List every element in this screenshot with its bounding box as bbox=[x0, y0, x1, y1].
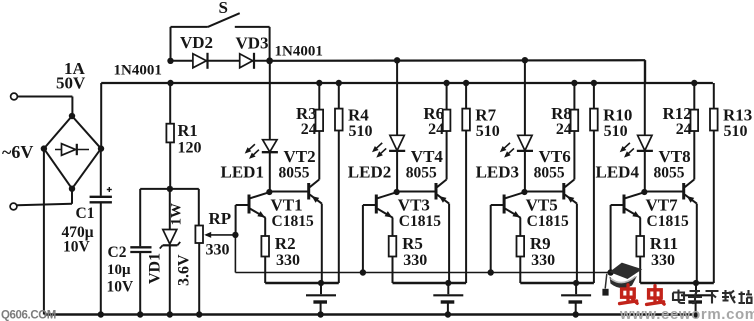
stage 1 emitter rail bbox=[265, 280, 339, 286]
stage 4 emitter rail bbox=[640, 280, 714, 286]
svg-text:VT7: VT7 bbox=[646, 196, 679, 215]
AC input terminal top bbox=[11, 93, 18, 100]
svg-text:C1815: C1815 bbox=[399, 213, 441, 230]
wire VT2 emitter column bbox=[321, 204, 323, 283]
label VT4 bbox=[406, 147, 444, 181]
svg-text:R10: R10 bbox=[603, 106, 632, 125]
base bus wire bbox=[232, 232, 610, 273]
switch S bbox=[171, 0, 270, 27]
svg-text:RP: RP bbox=[209, 209, 232, 228]
svg-text:R11: R11 bbox=[650, 234, 678, 253]
svg-text:24: 24 bbox=[301, 121, 317, 138]
svg-text:C1815: C1815 bbox=[647, 213, 689, 230]
junction ground bus C1 bbox=[98, 311, 104, 317]
svg-text:VD1: VD1 bbox=[147, 253, 164, 284]
wire VT3 base branch bbox=[360, 205, 366, 276]
resistor R2 330 bbox=[261, 218, 269, 283]
battery cell GB2 bbox=[433, 283, 463, 318]
node collector junction stage 3 bbox=[521, 189, 527, 195]
svg-text:120: 120 bbox=[178, 140, 202, 157]
svg-text:VT2: VT2 bbox=[284, 147, 316, 166]
svg-text:VT6: VT6 bbox=[539, 147, 571, 166]
resistor R5 330 bbox=[389, 218, 397, 283]
svg-text:Q606.COM: Q606.COM bbox=[1, 310, 56, 321]
junction LED bus stage2 bbox=[394, 57, 400, 63]
watermark Q606.COM bbox=[1, 310, 56, 321]
LED bus wire bbox=[270, 60, 646, 83]
RP wiper arrow bbox=[204, 232, 235, 238]
transistor VT4 bbox=[397, 180, 449, 204]
label LED3 bbox=[476, 162, 519, 181]
label VT3 bbox=[398, 196, 441, 230]
resistor R8 24 bbox=[571, 80, 579, 180]
logo url eeworm bbox=[619, 306, 754, 321]
node collector junction stage 4 bbox=[641, 189, 647, 195]
capacitor C1 470u bbox=[90, 149, 112, 315]
supply bus wire bbox=[101, 82, 713, 84]
stage 3 emitter rail bbox=[520, 280, 594, 286]
svg-text:VT3: VT3 bbox=[398, 196, 430, 215]
svg-text:VD3: VD3 bbox=[236, 34, 269, 53]
LED LED1 bbox=[245, 140, 278, 159]
svg-text:www.eeworm.com: www.eeworm.com bbox=[619, 306, 754, 321]
resistor R10 510 bbox=[590, 80, 598, 283]
wire LED1 anode column bbox=[269, 61, 271, 192]
resistor R11 330 bbox=[636, 218, 644, 283]
label 1N4001 left bbox=[114, 63, 162, 79]
transistor VT8 bbox=[644, 180, 696, 204]
label R6 bbox=[423, 104, 444, 138]
diode VD3 bbox=[240, 53, 254, 69]
label R11 bbox=[650, 234, 678, 269]
resistor R12 24 bbox=[691, 80, 699, 180]
wire VT5 base branch bbox=[488, 205, 494, 276]
transistor VT2 bbox=[269, 180, 321, 204]
svg-text:1N4001: 1N4001 bbox=[114, 63, 162, 79]
svg-text:R13: R13 bbox=[723, 106, 752, 125]
resistor R6 24 bbox=[443, 80, 451, 180]
resistor R3 24 bbox=[316, 80, 324, 180]
svg-text:S: S bbox=[219, 0, 228, 17]
label VD2 bbox=[180, 33, 213, 52]
svg-text:330: 330 bbox=[531, 252, 555, 269]
svg-text:VT1: VT1 bbox=[271, 196, 303, 215]
svg-text:VT8: VT8 bbox=[659, 147, 691, 166]
svg-text:24: 24 bbox=[556, 121, 572, 138]
svg-text:C1: C1 bbox=[76, 205, 95, 222]
svg-text:330: 330 bbox=[276, 252, 300, 269]
svg-text:8055: 8055 bbox=[534, 164, 565, 181]
diode VD2 bbox=[193, 53, 208, 69]
label R9 bbox=[530, 234, 555, 269]
logo text chong-chong bbox=[620, 285, 665, 305]
svg-text:330: 330 bbox=[206, 242, 230, 259]
label LED1 bbox=[221, 162, 264, 181]
node zener wire bbox=[140, 186, 199, 192]
label R2 bbox=[275, 234, 300, 269]
svg-text:510: 510 bbox=[349, 123, 373, 140]
label R3 bbox=[296, 104, 317, 138]
LED LED3 bbox=[500, 135, 533, 157]
svg-text:50V: 50V bbox=[56, 74, 86, 93]
label 1W bbox=[169, 203, 185, 226]
label RP bbox=[206, 209, 232, 259]
svg-text:510: 510 bbox=[476, 123, 500, 140]
AC input terminal bottom bbox=[10, 203, 17, 210]
svg-text:510: 510 bbox=[724, 123, 748, 140]
svg-text:R7: R7 bbox=[475, 106, 496, 125]
svg-text:R4: R4 bbox=[348, 106, 369, 125]
wire VT4 emitter column bbox=[448, 204, 450, 283]
svg-text:330: 330 bbox=[403, 252, 427, 269]
label 1N4001 right bbox=[275, 44, 323, 60]
wire bottom terminal to bridge bbox=[17, 189, 72, 206]
node collector junction stage 1 bbox=[266, 189, 272, 195]
junction ground bus C2 bbox=[137, 311, 143, 317]
transistor VT7 bbox=[611, 192, 645, 218]
svg-text:C1815: C1815 bbox=[272, 213, 314, 230]
wire VT6 emitter column bbox=[576, 204, 578, 283]
battery cell GB3 bbox=[561, 283, 591, 318]
label LED4 bbox=[596, 162, 640, 181]
wire LED2 anode column bbox=[396, 60, 398, 192]
svg-text:1W: 1W bbox=[169, 203, 185, 226]
svg-text:10μ: 10μ bbox=[107, 262, 131, 278]
svg-text:VT5: VT5 bbox=[526, 196, 558, 215]
svg-text:8055: 8055 bbox=[406, 164, 437, 181]
junction ground bus RP bbox=[196, 311, 202, 317]
wire LED3 anode column bbox=[524, 60, 526, 192]
capacitor C2 10u bbox=[130, 189, 151, 315]
battery cell GB4 bbox=[681, 283, 711, 318]
node collector junction stage 2 bbox=[394, 189, 400, 195]
label C2 bbox=[107, 244, 135, 296]
label R7 bbox=[475, 106, 500, 141]
logo graduation cap bbox=[602, 263, 642, 296]
wire VT7 base branch bbox=[607, 205, 613, 276]
label VT8 bbox=[654, 147, 691, 181]
bridge rectifier 1N4001 x4 bbox=[41, 113, 105, 192]
label R4 bbox=[348, 106, 373, 141]
svg-text:510: 510 bbox=[604, 123, 628, 140]
label VD3 bbox=[236, 34, 269, 53]
junction supply bus at R1 bbox=[167, 80, 173, 86]
transistor VT6 bbox=[525, 180, 577, 204]
junction ground bus VD1 bbox=[167, 311, 173, 317]
label VT5 bbox=[526, 196, 569, 230]
resistor R1 120 bbox=[166, 83, 174, 189]
label 1A bbox=[56, 59, 86, 93]
svg-text:8055: 8055 bbox=[654, 164, 685, 181]
label R5 bbox=[402, 234, 427, 269]
transistor VT5 bbox=[491, 192, 525, 218]
resistor R9 330 bbox=[517, 218, 525, 283]
wire switch-loop left vertical bbox=[170, 27, 172, 61]
label VT7 bbox=[646, 196, 689, 230]
svg-text:R9: R9 bbox=[530, 234, 551, 253]
svg-text:R1: R1 bbox=[178, 121, 198, 140]
zener diode VD1 3.6V bbox=[160, 189, 180, 315]
svg-text:VD2: VD2 bbox=[180, 33, 213, 52]
svg-text:R2: R2 bbox=[275, 234, 296, 253]
junction LED bus stage3 bbox=[522, 57, 528, 63]
svg-text:1N4001: 1N4001 bbox=[275, 44, 323, 60]
transistor VT1 bbox=[236, 192, 270, 218]
svg-text:330: 330 bbox=[651, 252, 675, 269]
wire switch-loop right vertical bbox=[269, 27, 271, 61]
LED LED4 bbox=[620, 135, 653, 157]
svg-text:24: 24 bbox=[676, 121, 692, 138]
svg-text:C1815: C1815 bbox=[527, 213, 569, 230]
label ~6V bbox=[2, 142, 33, 162]
label R8 bbox=[551, 104, 572, 138]
label R1 bbox=[178, 121, 202, 157]
resistor R7 510 bbox=[462, 80, 470, 283]
label 3.6V bbox=[176, 254, 193, 286]
svg-text:LED1: LED1 bbox=[221, 162, 264, 181]
svg-text:R5: R5 bbox=[402, 234, 423, 253]
svg-text:LED3: LED3 bbox=[476, 162, 519, 181]
wire VT8 emitter column bbox=[696, 204, 698, 283]
wire diode branch bbox=[167, 57, 273, 64]
ground bus wire bbox=[45, 313, 698, 316]
label R13 bbox=[723, 106, 752, 141]
svg-text:LED2: LED2 bbox=[348, 162, 391, 181]
stage 2 emitter rail bbox=[393, 280, 467, 286]
label C1 bbox=[62, 205, 95, 256]
wire bridge minus to bottom bus bbox=[43, 149, 45, 315]
svg-text:10V: 10V bbox=[107, 279, 135, 296]
svg-text:VT4: VT4 bbox=[411, 147, 444, 166]
svg-text:24: 24 bbox=[428, 121, 444, 138]
svg-text:C2: C2 bbox=[108, 244, 127, 261]
wire VT1 base branch bbox=[235, 205, 237, 235]
svg-text:10V: 10V bbox=[63, 239, 91, 256]
resistor R4 510 bbox=[335, 80, 343, 283]
wire LED4 anode column bbox=[644, 60, 646, 192]
LED LED2 bbox=[372, 135, 405, 157]
resistor R13 510 bbox=[710, 83, 718, 283]
transistor VT3 bbox=[363, 192, 397, 218]
svg-text:~6V: ~6V bbox=[2, 142, 33, 162]
label R10 bbox=[603, 106, 632, 141]
battery cell GB1 bbox=[306, 283, 336, 318]
label VT1 bbox=[271, 196, 314, 230]
label R12 bbox=[663, 104, 692, 138]
wire top terminal to bridge bbox=[17, 97, 72, 117]
svg-text:LED4: LED4 bbox=[596, 162, 640, 181]
label VT6 bbox=[534, 147, 571, 181]
wire bridge plus up to supply bus bbox=[100, 83, 102, 149]
svg-text:8055: 8055 bbox=[279, 164, 310, 181]
label VD1 bbox=[147, 253, 164, 284]
label VT2 bbox=[279, 147, 316, 181]
potentiometer RP 330 bbox=[195, 189, 203, 315]
svg-text:3.6V: 3.6V bbox=[176, 254, 193, 286]
label LED2 bbox=[348, 162, 391, 181]
logo text dianzi-xiazai-zhan bbox=[673, 290, 752, 304]
